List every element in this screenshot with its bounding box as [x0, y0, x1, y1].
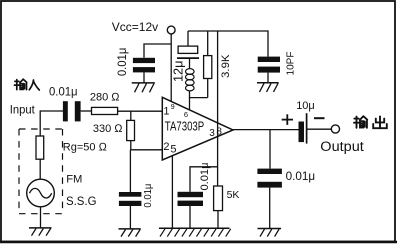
wire L1 bottom to junction and pin6 [190, 91, 208, 98]
svg-text:12μ: 12μ [172, 61, 186, 83]
wire C3 to inductor L1 [189, 58, 191, 69]
svg-text:0.01μ: 0.01μ [286, 169, 316, 183]
capacitor C5 10PF [258, 57, 280, 73]
minus sign [314, 117, 325, 119]
capacitor C6 0.01u below U1 [178, 192, 204, 206]
ground G6 [257, 83, 279, 92]
svg-text:Output: Output [320, 139, 364, 154]
wire output junction down to C7 [269, 130, 271, 169]
wire C4 to ground [129, 206, 131, 229]
wire R4 to ground bar [217, 211, 219, 229]
wire C6 to ground bar [189, 206, 191, 228]
source FM S.S.G circle [27, 179, 55, 207]
wire source to ground G1 [40, 207, 42, 228]
svg-text:3: 3 [209, 128, 215, 139]
capacitor C4 0.01u lower-left [119, 192, 141, 206]
plus sign [282, 114, 293, 125]
svg-text:10PF: 10PF [284, 52, 296, 76]
wire Vcc down to pin9 [170, 34, 172, 102]
ground G1 under source [29, 228, 52, 236]
svg-text:10μ: 10μ [296, 100, 315, 112]
capacitor C3 12u electrolytic box style [177, 46, 199, 58]
svg-text:0.01μ: 0.01μ [115, 48, 129, 77]
node 输出 label [354, 116, 387, 128]
svg-text:9: 9 [171, 104, 175, 111]
svg-text:5: 5 [170, 143, 176, 155]
svg-text:330 Ω: 330 Ω [93, 123, 123, 135]
wire junction down to R2 330 [130, 111, 132, 120]
wire C1 to R1 [81, 110, 92, 112]
svg-text:1: 1 [163, 106, 169, 118]
ground G5 [132, 83, 155, 92]
wire C2 to ground G5 [143, 72, 145, 83]
ground G3 long hatched bar [159, 228, 231, 236]
svg-text:0.01μ: 0.01μ [199, 163, 211, 191]
inductor L1 coil [186, 69, 195, 91]
wire output from apex [233, 129, 299, 131]
resistor R1 280ohm [92, 107, 118, 114]
svg-text:0.01μ: 0.01μ [143, 183, 154, 207]
svg-text:6: 6 [184, 110, 188, 119]
ground G4 [258, 229, 282, 237]
capacitor C8 10u electrolytic output [299, 113, 307, 143]
resistor Rg 50ohm [36, 136, 44, 159]
svg-text:S.S.G: S.S.G [66, 194, 97, 208]
wire input horizontal to C1 [40, 110, 63, 112]
wire rail down to C3 [187, 31, 189, 46]
terminal Vcc circle [167, 26, 175, 34]
svg-text:2: 2 [163, 141, 169, 153]
svg-text:5K: 5K [227, 189, 240, 201]
wire C8 to output terminal [307, 128, 332, 130]
wire input junction down to Rg [39, 110, 41, 136]
wire pin5 down to ground bar [171, 156, 173, 229]
dashed box signal generator [19, 129, 63, 214]
ground G2 under C4 [119, 229, 141, 237]
wire C5 to ground G6 [267, 73, 269, 83]
svg-text:280 Ω: 280 Ω [90, 92, 120, 104]
wire C7 to ground G4 [269, 188, 271, 229]
capacitor C1 0.01u input [63, 101, 81, 121]
resistor R4 5K [214, 186, 223, 211]
wire R2 bottom to pin2 node [131, 141, 163, 150]
wire R1 to pin1 [118, 110, 163, 112]
wire pin8 vertical through triangle [217, 31, 219, 186]
resistor R3 3.9K [204, 56, 212, 79]
wire node down to C4 [129, 150, 131, 192]
node 输入 label [15, 79, 40, 90]
resistor R2 330ohm [127, 120, 135, 140]
capacitor C7 0.01u at output [257, 169, 282, 188]
svg-text:Input: Input [10, 105, 36, 117]
wire Vcc branch to C2 [144, 44, 171, 58]
wire R3 top lead [207, 31, 209, 56]
wire Rg to source circle [39, 159, 41, 179]
svg-text:TA7303P: TA7303P [165, 119, 204, 133]
svg-text:Vcc=12v: Vcc=12v [112, 20, 158, 34]
svg-text:3.9K: 3.9K [220, 54, 232, 78]
svg-text:Rg=50 Ω: Rg=50 Ω [63, 141, 108, 153]
terminal output circle [331, 125, 339, 133]
capacitor C2 0.01u at Vcc [133, 58, 155, 73]
op-amp U1 TA7303P triangle [162, 97, 233, 160]
wire R3 bottom lead [207, 79, 209, 98]
svg-text:0.01μ: 0.01μ [49, 84, 78, 98]
svg-text:FM: FM [66, 174, 82, 186]
wire top rail [188, 31, 268, 57]
wire junction to C6 [190, 167, 218, 192]
